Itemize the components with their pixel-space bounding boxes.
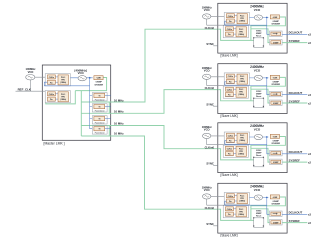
svg-text:VCO: VCO — [78, 71, 85, 75]
svg-text:0/SMP: 0/SMP — [96, 82, 103, 84]
svg-text:÷LMK: ÷LMK — [96, 77, 102, 80]
svg-text:DIVIDER: DIVIDER — [95, 84, 104, 86]
svg-text:[Master LMK ]: [Master LMK ] — [44, 142, 65, 146]
svg-text:VCO: VCO — [28, 70, 34, 74]
svg-text:REF_CLK: REF_CLK — [18, 88, 32, 92]
